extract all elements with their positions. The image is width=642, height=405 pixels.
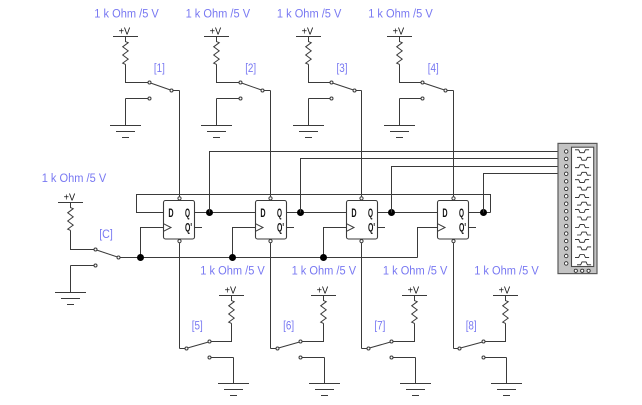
ground symbol (switch [1]) bbox=[110, 126, 141, 138]
wire: U3 ~CLR pin down to switch [7] bbox=[361, 243, 363, 348]
svg-text:[8]: [8] bbox=[466, 321, 477, 333]
resistor R1 (1 kOhm) bbox=[123, 37, 129, 65]
wire: switch [1] open throw to ground bbox=[125, 99, 127, 126]
ground symbol (switch [4]) bbox=[384, 126, 415, 138]
wire: U4 ~CLR pin down to switch [8] bbox=[453, 243, 455, 348]
ground symbol (switch [C]) bbox=[55, 293, 86, 305]
wire: clock branch up into U3 CLK (>) input bbox=[324, 228, 347, 258]
wire: U4 Q' output stub bbox=[469, 227, 477, 229]
+V power supply for R4 bbox=[387, 27, 412, 38]
ground symbol (switch [6]) bbox=[309, 384, 340, 396]
wire: switch [8] open throw to ground bbox=[506, 358, 508, 384]
svg-text:[1]: [1] bbox=[154, 63, 165, 75]
svg-text:Q: Q bbox=[368, 208, 373, 220]
D flip-flop U3 bbox=[347, 197, 378, 243]
junction: clock net at U2 branch bbox=[229, 254, 236, 261]
resistor R2 (1 kOhm) bbox=[214, 37, 220, 65]
wire: node Q3 to logic analyzer channel 3 bbox=[392, 167, 559, 213]
svg-text:D: D bbox=[351, 208, 356, 220]
junction: node Q3 bbox=[388, 209, 395, 216]
+V power supply for R8 bbox=[493, 286, 518, 297]
svg-text:[4]: [4] bbox=[428, 63, 439, 75]
wire: switch [4] open throw to ground bbox=[399, 99, 401, 126]
svg-text:Q: Q bbox=[185, 208, 190, 220]
switch [2] (SPDT key 2) bbox=[217, 81, 271, 100]
junction: clock net at U3 branch bbox=[320, 254, 327, 261]
svg-text:1 k Ohm /5 V: 1 k Ohm /5 V bbox=[474, 266, 539, 278]
wire: resistor R5 to switch [5] pole bbox=[211, 323, 232, 341]
wire: clock branch up into U1 CLK (>) input bbox=[141, 228, 164, 258]
svg-text:1 k Ohm /5 V: 1 k Ohm /5 V bbox=[42, 173, 107, 185]
svg-text:Q': Q' bbox=[368, 223, 375, 235]
wire: node Q4 to logic analyzer channel 4 bbox=[484, 174, 559, 213]
svg-text:[3]: [3] bbox=[337, 63, 348, 75]
junction: node Q1 bbox=[206, 209, 213, 216]
svg-text:1 k Ohm /5 V: 1 k Ohm /5 V bbox=[368, 9, 433, 21]
+V power supply for R5 bbox=[219, 286, 244, 297]
wire: node Q2 to logic analyzer channel 2 bbox=[301, 159, 559, 213]
resistor R3 (1 kOhm) bbox=[306, 37, 312, 65]
+V power supply for RC bbox=[58, 193, 83, 204]
wire: node Q1 to logic analyzer channel 1 bbox=[210, 152, 559, 213]
D flip-flop U4 bbox=[438, 197, 469, 243]
svg-text:1 k Ohm /5 V: 1 k Ohm /5 V bbox=[383, 266, 448, 278]
svg-text:[5]: [5] bbox=[192, 321, 203, 333]
+V power supply for R6 bbox=[311, 286, 336, 297]
wire: U1 ~CLR pin down to switch [5] bbox=[179, 243, 181, 348]
+V power supply for R3 bbox=[296, 27, 321, 38]
wire: U1 Q' output stub bbox=[195, 227, 203, 229]
wire: switch [1] output down to U1 ~PR pin bbox=[179, 91, 181, 197]
wire: resistor R8 to switch [8] pole bbox=[485, 323, 506, 341]
wire: U4 Q output to node Q4 bbox=[469, 212, 491, 214]
wire: switch [2] open throw to ground bbox=[216, 99, 218, 126]
wire: node Q3 to U4 D input bbox=[392, 212, 438, 214]
wire: clock branch up into U4 CLK (>) input bbox=[418, 228, 438, 258]
junction: clock net at U1 branch bbox=[137, 254, 144, 261]
resistor R6 (1 kOhm) bbox=[321, 296, 327, 324]
switch [7] (SPDT key 7) bbox=[362, 340, 416, 359]
ground symbol (switch [5]) bbox=[218, 384, 249, 396]
svg-text:D: D bbox=[442, 208, 447, 220]
svg-text:Q': Q' bbox=[277, 223, 284, 235]
switch [5] (SPDT key 5) bbox=[180, 340, 234, 359]
switch [4] (SPDT key 4) bbox=[400, 81, 454, 100]
junction: node Q4 bbox=[480, 209, 487, 216]
D flip-flop U1 bbox=[164, 197, 195, 243]
wire: switch [5] open throw to ground bbox=[233, 358, 235, 384]
svg-text:Q': Q' bbox=[459, 223, 466, 235]
wire: U2 Q output to node Q2 bbox=[287, 212, 301, 214]
svg-text:1 k Ohm /5 V: 1 k Ohm /5 V bbox=[200, 266, 265, 278]
wire: clock branch up into U2 CLK (>) input bbox=[233, 228, 256, 258]
switch [C] (SPDT clock key) bbox=[71, 248, 121, 267]
svg-text:Q': Q' bbox=[185, 223, 192, 235]
resistor R7 (1 kOhm) bbox=[412, 296, 418, 324]
svg-text:[2]: [2] bbox=[245, 63, 256, 75]
wire: switch [7] open throw to ground bbox=[415, 358, 417, 384]
svg-text:1 k Ohm /5 V: 1 k Ohm /5 V bbox=[94, 9, 159, 21]
resistor R5 (1 kOhm) bbox=[229, 296, 235, 324]
ground symbol (switch [2]) bbox=[201, 126, 232, 138]
resistor RC (1 kOhm) bbox=[68, 203, 74, 231]
svg-text:Q: Q bbox=[459, 208, 464, 220]
wire: switch [6] open throw to ground bbox=[324, 358, 326, 384]
wire: switch [3] output down to U3 ~PR pin bbox=[361, 91, 363, 197]
svg-text:[6]: [6] bbox=[283, 321, 294, 333]
wire: resistor R7 to switch [7] pole bbox=[393, 323, 415, 341]
ground symbol (switch [3]) bbox=[293, 126, 324, 138]
svg-text:1 k Ohm /5 V: 1 k Ohm /5 V bbox=[186, 9, 251, 21]
wire: switch [4] output down to U4 ~PR pin bbox=[453, 91, 455, 197]
wire: node Q1 to U2 D input bbox=[210, 212, 256, 214]
wire: resistor R6 to switch [6] pole bbox=[302, 323, 324, 341]
svg-text:[7]: [7] bbox=[374, 321, 385, 333]
ground symbol (switch [8]) bbox=[491, 384, 522, 396]
svg-text:1 k Ohm /5 V: 1 k Ohm /5 V bbox=[292, 266, 357, 278]
wire: resistor R3 to switch [3] pole bbox=[309, 64, 331, 82]
wire: U2 ~CLR pin down to switch [6] bbox=[270, 243, 272, 348]
wire: U2 Q' output stub bbox=[287, 227, 295, 229]
logic analyzer XLA1 (16-channel instrument icon) bbox=[558, 143, 597, 273]
wire: clock net from switch [C] across flip-flop row bbox=[120, 257, 418, 259]
switch [6] (SPDT key 6) bbox=[271, 340, 325, 359]
wire: switch [2] output down to U2 ~PR pin bbox=[270, 91, 272, 197]
wire: resistor R1 to switch [1] pole bbox=[126, 64, 149, 82]
D flip-flop U2 bbox=[256, 197, 287, 243]
wire: switch [C] open throw to ground bbox=[70, 266, 72, 293]
svg-text:[C]: [C] bbox=[99, 229, 113, 241]
wire: resistor R4 to switch [4] pole bbox=[400, 64, 422, 82]
+V power supply for R7 bbox=[402, 286, 427, 297]
svg-text:D: D bbox=[168, 208, 173, 220]
wire: feedback from node Q4 around to U1 D input bbox=[137, 195, 491, 213]
svg-text:Q: Q bbox=[277, 208, 282, 220]
+V power supply for R2 bbox=[204, 27, 229, 38]
switch [8] (SPDT key 8) bbox=[454, 340, 507, 359]
svg-text:D: D bbox=[260, 208, 265, 220]
wire: switch [3] open throw to ground bbox=[308, 99, 310, 126]
+V power supply for R1 bbox=[113, 27, 138, 38]
switch [1] (SPDT key 1) bbox=[126, 81, 180, 100]
wire: resistor RC to switch [C] pole bbox=[71, 230, 95, 249]
wire: node Q2 to U3 D input bbox=[301, 212, 347, 214]
resistor R4 (1 kOhm) bbox=[397, 37, 403, 65]
ground symbol (switch [7]) bbox=[400, 384, 431, 396]
junction: node Q2 bbox=[297, 209, 304, 216]
wire: U3 Q output to node Q3 bbox=[378, 212, 392, 214]
resistor R8 (1 kOhm) bbox=[503, 296, 509, 324]
svg-text:1 k Ohm /5 V: 1 k Ohm /5 V bbox=[277, 9, 342, 21]
switch [3] (SPDT key 3) bbox=[309, 81, 362, 100]
wire: U1 Q output to node Q1 bbox=[195, 212, 210, 214]
wire: U3 Q' output stub bbox=[378, 227, 386, 229]
wire: resistor R2 to switch [2] pole bbox=[217, 64, 240, 82]
